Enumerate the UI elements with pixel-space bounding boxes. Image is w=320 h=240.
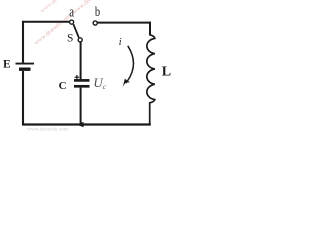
capacitor branch wire upper <box>80 42 82 79</box>
switch S lever <box>73 24 78 37</box>
svg-text:L: L <box>162 65 171 80</box>
junction dot <box>77 122 84 127</box>
battery E short plate <box>19 67 31 70</box>
capacitor C bottom plate <box>74 85 90 88</box>
svg-text:a: a <box>69 3 74 20</box>
plus sign <box>75 76 80 78</box>
wire: right vertical upper <box>149 22 151 36</box>
capacitor C top plate <box>74 79 90 82</box>
current arc i <box>126 46 133 83</box>
wire: b to top-right corner <box>97 22 151 24</box>
wire: top-left horizontal <box>22 21 69 23</box>
wire: left vertical upper <box>22 21 24 63</box>
svg-text:E: E <box>3 58 11 70</box>
svg-text:i: i <box>119 37 122 48</box>
current arrowhead <box>123 79 131 88</box>
wire: left vertical lower <box>22 71 24 125</box>
svg-text:C: C <box>59 80 67 92</box>
svg-text:www.dearedu.com: www.dearedu.com <box>27 127 69 133</box>
switch S pivot <box>78 38 82 42</box>
node b <box>93 21 97 25</box>
svg-text:b: b <box>95 4 100 20</box>
svg-text:S: S <box>67 32 73 44</box>
inductor L coil <box>147 35 155 125</box>
node a <box>70 20 74 24</box>
battery E long plate <box>16 63 35 65</box>
wire: bottom horizontal <box>22 123 151 125</box>
capacitor branch wire lower <box>80 88 82 125</box>
